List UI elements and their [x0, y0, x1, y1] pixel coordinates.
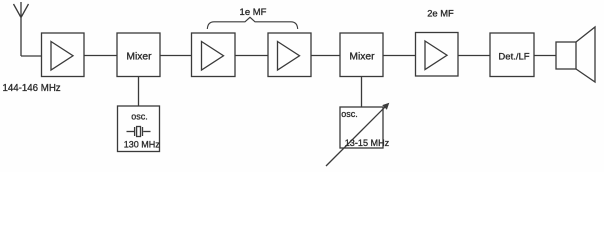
crystal X1 — [127, 127, 151, 137]
amplifier A4 box — [416, 33, 459, 77]
detector box — [490, 33, 534, 77]
svg-text:2e MF: 2e MF — [427, 7, 454, 18]
amplifier A2 triangle — [202, 42, 224, 71]
wire M1 to amp A2 — [160, 55, 192, 57]
antenna — [14, 2, 29, 56]
oscillator O1 box — [118, 106, 160, 152]
speaker LS1 — [556, 27, 595, 82]
wire M2 to oscillator O2 — [361, 77, 363, 108]
svg-text:osc.: osc. — [131, 112, 148, 122]
amplifier A4 triangle — [425, 41, 447, 70]
wire A1 to mixer M1 — [84, 55, 117, 57]
svg-text:Mixer: Mixer — [126, 52, 152, 63]
svg-text:Mixer: Mixer — [349, 52, 375, 63]
wire detector to speaker — [534, 55, 556, 57]
brace over 1e MF stages — [207, 17, 297, 29]
amplifier A2 box — [192, 33, 236, 77]
amplifier A3 box — [268, 33, 311, 77]
svg-text:13-15 MHz: 13-15 MHz — [345, 138, 390, 148]
svg-text:130 MHz: 130 MHz — [124, 140, 161, 150]
wire M1 to oscillator O1 — [138, 77, 140, 107]
wire antenna to amp — [21, 55, 42, 57]
svg-text:1e MF: 1e MF — [240, 7, 267, 18]
svg-text:osc.: osc. — [341, 109, 358, 119]
wire A2 to amp A3 — [235, 55, 268, 57]
svg-text:144-146 MHz: 144-146 MHz — [3, 83, 61, 94]
tuning arrow through O2 — [326, 103, 389, 166]
mixer M2 box — [340, 33, 383, 77]
amplifier A1 box — [42, 33, 85, 77]
oscillator O2 box — [340, 107, 383, 148]
amplifier A3 triangle — [278, 42, 300, 71]
wire M2 to amp A4 — [383, 55, 416, 57]
amplifier A1 triangle — [51, 42, 73, 71]
svg-text:Det./LF: Det./LF — [498, 52, 529, 63]
mixer M1 box — [117, 33, 160, 77]
wire A3 to mixer M2 — [311, 55, 340, 57]
wire A4 to detector — [458, 55, 490, 57]
